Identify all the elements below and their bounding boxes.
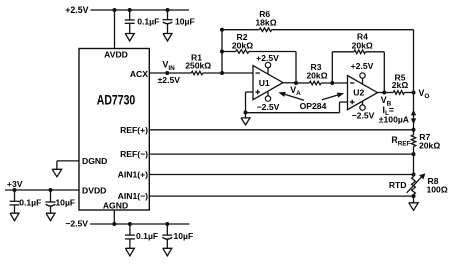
wire +3V rail bbox=[5, 189, 79, 191]
wire R4 left drop bbox=[331, 52, 333, 83]
ref label R3 bbox=[311, 62, 322, 72]
op-amp U1 triangle bbox=[253, 66, 283, 100]
svg-text:±100µA: ±100µA bbox=[379, 115, 409, 125]
value label 10µF bbox=[175, 17, 195, 27]
label RREF bbox=[391, 135, 410, 147]
wire DGND stub bbox=[57, 161, 79, 169]
svg-text:20kΩ: 20kΩ bbox=[306, 71, 327, 81]
label ±2.5V (VIN) bbox=[158, 75, 181, 85]
ground (10µF -2.5V) bbox=[163, 248, 172, 256]
svg-text:0.1µF: 0.1µF bbox=[137, 17, 159, 27]
value label 100Ω bbox=[427, 185, 448, 195]
IC U3 AD7730 body bbox=[79, 49, 149, 211]
svg-text:AD7730: AD7730 bbox=[97, 92, 136, 108]
pin DVDD label bbox=[82, 185, 106, 195]
resistor R6 bbox=[259, 28, 271, 32]
svg-text:ACX: ACX bbox=[130, 69, 148, 79]
op-amp U2 triangle bbox=[348, 76, 378, 110]
resistor R4 bbox=[354, 50, 366, 54]
svg-text:AVDD: AVDD bbox=[104, 49, 128, 59]
wire REF(+) to R7 bbox=[413, 130, 415, 135]
wire R6 rail right bbox=[272, 29, 414, 31]
pin ACX label bbox=[130, 69, 148, 79]
svg-text:+3V: +3V bbox=[7, 179, 23, 189]
ref label R1 bbox=[191, 52, 202, 62]
pin AGND label bbox=[103, 200, 128, 210]
junction +3V C4 bbox=[49, 188, 53, 192]
junction AGND / -2.5V bbox=[112, 222, 116, 226]
ref label R4 bbox=[357, 32, 368, 42]
svg-text:−2.5V: −2.5V bbox=[257, 102, 280, 112]
resistor R5 bbox=[393, 91, 404, 95]
node -2.5V supply bbox=[65, 219, 88, 229]
wire -2.5V rail bbox=[90, 223, 189, 225]
wire RTD to ground bbox=[413, 196, 415, 203]
junction on top rail (AVDD) bbox=[113, 8, 117, 12]
svg-text:U1: U1 bbox=[259, 78, 270, 88]
junction AIN1(+) / RTD top bbox=[412, 173, 416, 177]
capacitor 0.1µF (-2.5V) bbox=[125, 224, 135, 248]
capacitor 10µF (DVDD) bbox=[46, 190, 56, 213]
svg-text:AIN1(+): AIN1(+) bbox=[118, 170, 148, 180]
wire RTD bottom lead bbox=[413, 195, 415, 197]
op-amp U1 plus sign bbox=[255, 90, 260, 95]
op-amp U2 plus sign bbox=[350, 100, 355, 105]
wire R6 rail left bbox=[222, 29, 259, 31]
junction AIN1(-) / RTD bottom bbox=[412, 194, 416, 198]
svg-text:+2.5V: +2.5V bbox=[256, 53, 279, 63]
node VO label bbox=[419, 88, 430, 100]
label IL= bbox=[383, 105, 395, 117]
junction on top rail (C1) bbox=[128, 8, 132, 12]
pin AVDD label bbox=[104, 49, 128, 59]
wire ground stem bbox=[245, 113, 247, 118]
value label 0.1µF (-2.5V) bbox=[136, 231, 158, 241]
svg-text:VIN: VIN bbox=[163, 60, 176, 72]
pin REF(+) label bbox=[120, 125, 148, 135]
pin DGND label bbox=[82, 156, 107, 166]
wire R1 to U1 inverting input bbox=[203, 72, 253, 74]
svg-text:OP284: OP284 bbox=[300, 101, 327, 111]
value label 10µF (-2.5V) bbox=[174, 231, 194, 241]
ref label R6 bbox=[259, 9, 270, 19]
wire R2 right rail bbox=[249, 51, 296, 53]
ground (10µF DVDD) bbox=[46, 213, 55, 221]
op-amp U2 minus sign bbox=[350, 82, 354, 84]
junction +3V C3 bbox=[13, 188, 17, 192]
node VA label bbox=[290, 85, 301, 97]
svg-text:250kΩ: 250kΩ bbox=[185, 60, 211, 70]
capacitor 0.1µF (AVDD decoupling) bbox=[125, 10, 135, 34]
value label 10µF (DVDD) bbox=[55, 198, 75, 208]
ground (U1 reference) bbox=[241, 118, 250, 125]
wire REF(-) to AIN1(+) bbox=[413, 154, 415, 177]
wire R4 rail left bbox=[332, 51, 354, 53]
junction -2.5V C5 bbox=[128, 222, 132, 226]
current arrow IL (bidirectional) bbox=[411, 110, 416, 124]
junction on top rail (C2) bbox=[166, 8, 170, 12]
wire U1 non-inverting to ground bbox=[246, 92, 254, 113]
wire ground rail to U2 non-inverting bbox=[246, 102, 348, 113]
wire R4 rail right bbox=[366, 51, 385, 53]
wire VO down to REF(+) bbox=[413, 93, 415, 131]
ref label R8 bbox=[428, 176, 439, 186]
label ±100µA bbox=[379, 115, 409, 125]
svg-text:10µF: 10µF bbox=[55, 198, 75, 208]
value label 20kΩ (R4) bbox=[352, 40, 373, 50]
wire R7 to REF(-) bbox=[413, 147, 415, 155]
svg-text:20kΩ: 20kΩ bbox=[232, 41, 253, 51]
svg-text:10µF: 10µF bbox=[174, 231, 194, 241]
wire REF(+) net bbox=[149, 129, 413, 131]
capacitor 10µF (AVDD decoupling) bbox=[163, 10, 173, 34]
value label 2kΩ bbox=[392, 80, 409, 90]
ground (DGND) bbox=[52, 169, 62, 177]
value label 250kΩ bbox=[185, 60, 211, 70]
label RTD bbox=[389, 180, 407, 190]
svg-text:±2.5V: ±2.5V bbox=[158, 75, 181, 85]
wire ACX to R1 bbox=[149, 72, 191, 74]
svg-text:U2: U2 bbox=[353, 88, 364, 98]
junction R6 tap bbox=[220, 28, 224, 32]
resistor R8 (RTD) bbox=[412, 177, 416, 195]
svg-text:VA: VA bbox=[290, 85, 301, 97]
svg-text:20kΩ: 20kΩ bbox=[419, 141, 440, 151]
label OP284 bbox=[300, 101, 327, 111]
svg-text:−2.5V: −2.5V bbox=[352, 110, 375, 120]
wire R4 drop to U2 output bbox=[383, 52, 385, 93]
node VB junction bbox=[382, 91, 386, 95]
resistor R7 (RREF) bbox=[411, 135, 415, 147]
node VIN label bbox=[163, 60, 176, 72]
value label 20kΩ (R2) bbox=[232, 41, 253, 51]
op-amp U1 minus sign bbox=[256, 72, 260, 74]
ground (RTD return) bbox=[409, 203, 419, 211]
value label 0.1µF bbox=[137, 17, 159, 27]
junction R3/R4 node bbox=[330, 81, 334, 85]
svg-text:100Ω: 100Ω bbox=[427, 185, 448, 195]
node VIN junction bbox=[165, 71, 169, 75]
junction R2 tap bbox=[220, 50, 224, 54]
node +3V supply bbox=[7, 179, 23, 189]
svg-text:VO: VO bbox=[419, 88, 430, 100]
junction ground node bbox=[244, 111, 248, 115]
wire U1 output to R3 bbox=[296, 82, 309, 84]
svg-text:AGND: AGND bbox=[103, 200, 128, 210]
node +2.5V supply (top) bbox=[65, 5, 88, 15]
node VA junction bbox=[294, 81, 298, 85]
node VB label bbox=[381, 95, 392, 107]
svg-text:REF(−): REF(−) bbox=[120, 149, 148, 159]
ref label R5 bbox=[395, 72, 406, 82]
ref label U2 bbox=[353, 88, 364, 98]
ground (10µF top) bbox=[163, 34, 172, 42]
U2 -2.5V supply pin bbox=[352, 101, 375, 121]
value label 18kΩ bbox=[255, 18, 276, 28]
svg-text:0.1µF: 0.1µF bbox=[136, 231, 158, 241]
arrow OP284 to U2 bbox=[322, 93, 344, 100]
RTD variable arrow bbox=[407, 173, 426, 192]
U1 -2.5V supply pin bbox=[257, 91, 280, 112]
arrow OP284 to U1 bbox=[278, 92, 304, 100]
junction R1/R2/R6 node bbox=[220, 71, 224, 75]
svg-text:+2.5V: +2.5V bbox=[351, 61, 374, 71]
svg-text:DGND: DGND bbox=[82, 156, 107, 166]
resistor R1 bbox=[191, 71, 203, 75]
value label 20kΩ (R3) bbox=[306, 71, 327, 81]
node VO junction bbox=[412, 91, 416, 95]
svg-text:+2.5V: +2.5V bbox=[65, 5, 88, 15]
wire AVDD supply drop bbox=[114, 10, 116, 49]
svg-text:DVDD: DVDD bbox=[82, 185, 106, 195]
wire AIN1(-) net bbox=[149, 195, 413, 197]
ref label U1 bbox=[259, 78, 270, 88]
ref label R2 bbox=[237, 32, 248, 42]
ref label R7 bbox=[419, 132, 430, 142]
wire R3 to U2 inverting input bbox=[321, 82, 347, 84]
value label 0.1µF (DVDD) bbox=[19, 198, 41, 208]
wire R2 drop to U1 output bbox=[295, 52, 297, 84]
svg-text:RTD: RTD bbox=[389, 180, 407, 190]
svg-text:10µF: 10µF bbox=[175, 17, 195, 27]
wire REF(-) net bbox=[149, 153, 413, 155]
junction REF(+) / R7 top bbox=[412, 128, 416, 132]
ground (0.1µF top) bbox=[125, 34, 134, 42]
svg-text:RREF: RREF bbox=[391, 135, 410, 147]
svg-text:−2.5V: −2.5V bbox=[65, 219, 88, 229]
U1 +2.5V supply pin bbox=[256, 53, 279, 74]
wire R5 to VO bbox=[404, 92, 413, 94]
pin AIN1(+) label bbox=[118, 170, 148, 180]
svg-text:0.1µF: 0.1µF bbox=[19, 198, 41, 208]
wire AIN1(+) net bbox=[149, 174, 413, 176]
svg-text:20kΩ: 20kΩ bbox=[352, 40, 373, 50]
wire U2 output bbox=[378, 92, 394, 94]
junction -2.5V C6 bbox=[165, 222, 169, 226]
capacitor 10µF (-2.5V) bbox=[162, 224, 172, 248]
wire AGND drop bbox=[113, 210, 115, 224]
value label 20kΩ (R7) bbox=[419, 141, 440, 151]
wire +2.5V top rail bbox=[91, 9, 190, 11]
resistor R2 bbox=[236, 50, 249, 54]
capacitor 0.1µF (DVDD) bbox=[10, 190, 20, 213]
pin REF(-) label bbox=[120, 149, 148, 159]
svg-text:2kΩ: 2kΩ bbox=[392, 80, 409, 90]
wire U1 output bbox=[283, 82, 296, 84]
svg-text:18kΩ: 18kΩ bbox=[255, 18, 276, 28]
U2 +2.5V supply pin bbox=[351, 61, 374, 84]
ground (0.1µF DVDD) bbox=[10, 213, 19, 221]
resistor R3 bbox=[309, 81, 321, 85]
pin AIN1(-) label bbox=[118, 191, 148, 201]
wire R6 rail drop to VO bbox=[413, 30, 415, 93]
ground (0.1µF -2.5V) bbox=[125, 248, 134, 256]
svg-text:REF(+): REF(+) bbox=[120, 125, 148, 135]
junction REF(-) / R7 bottom bbox=[412, 152, 416, 156]
wire R2 left lead bbox=[222, 51, 236, 53]
wire junction column bbox=[221, 30, 223, 73]
